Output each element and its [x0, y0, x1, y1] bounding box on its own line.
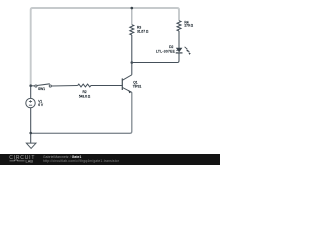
svg-text:http://circuitlab.com/c/9hgq4m: http://circuitlab.com/c/9hgq4m/gate1-tra… — [43, 159, 120, 163]
wire to ground — [30, 133, 32, 143]
wire R4 to LED — [178, 31, 180, 48]
voltage source V1 — [26, 98, 35, 107]
LED emission arrows — [185, 47, 188, 49]
wire top rail (light) — [31, 8, 179, 85]
LED D2 — [176, 47, 191, 55]
node top junction — [131, 7, 134, 10]
switch SW1 — [31, 84, 78, 87]
footer bar — [0, 154, 220, 165]
node bottom junction — [29, 132, 32, 135]
wire V1 top — [30, 86, 32, 99]
svg-text:279 Ω: 279 Ω — [184, 24, 193, 28]
svg-text:TIP31: TIP31 — [133, 84, 142, 88]
svg-text:31.67 Ω: 31.67 Ω — [137, 30, 149, 34]
wire emitter bottom rail (medium) — [31, 92, 132, 133]
node switch junction — [29, 84, 32, 87]
resistor R4 — [177, 21, 181, 31]
svg-text:SW1: SW1 — [38, 87, 45, 91]
svg-text:LAB: LAB — [26, 160, 34, 164]
wire R3 top stub (medium) — [131, 8, 133, 25]
svg-text:543.6 Ω: 543.6 Ω — [79, 94, 91, 98]
wire R2 to base — [91, 85, 122, 87]
wire collector vertical — [131, 35, 133, 75]
label pointer dash — [176, 49, 178, 51]
svg-text:R2: R2 — [82, 90, 86, 94]
wire LED to junction — [132, 53, 179, 63]
svg-text:D2: D2 — [169, 45, 173, 49]
wire V1 bottom — [30, 108, 32, 133]
transistor Q1 — [122, 75, 132, 93]
resistor R2 — [78, 84, 91, 87]
footer logo LAB waveform — [10, 159, 25, 162]
svg-text:LTL-307EE: LTL-307EE — [156, 50, 176, 54]
node LED branch junction — [131, 61, 134, 64]
ground — [26, 143, 36, 148]
resistor R3 — [130, 25, 134, 35]
svg-text:6 V: 6 V — [38, 103, 44, 107]
emitter arrow head — [128, 90, 131, 93]
